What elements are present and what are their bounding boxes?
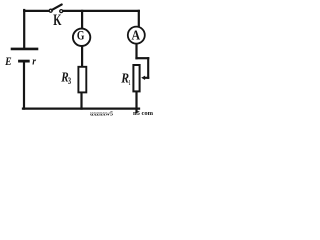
svg-text:n5 com: n5 com: [133, 110, 154, 117]
svg-text:uxznxw5: uxznxw5: [90, 112, 113, 118]
svg-text:A: A: [132, 29, 141, 44]
svg-text:3: 3: [68, 76, 72, 86]
svg-text:E: E: [4, 56, 12, 68]
svg-text:G: G: [77, 29, 85, 43]
svg-text:K: K: [53, 12, 61, 29]
svg-text:1: 1: [129, 79, 131, 87]
